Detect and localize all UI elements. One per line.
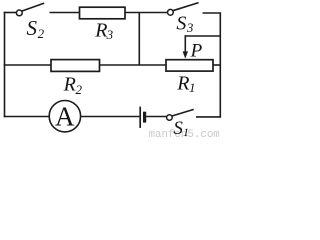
svg-text:R: R xyxy=(63,74,76,96)
svg-text:R: R xyxy=(176,72,189,94)
svg-text:P: P xyxy=(190,41,203,62)
svg-text:S: S xyxy=(27,16,38,40)
svg-text:S: S xyxy=(176,12,186,34)
svg-text:S: S xyxy=(173,118,183,138)
svg-text:1: 1 xyxy=(183,125,189,138)
svg-text:2: 2 xyxy=(38,26,45,41)
svg-text:3: 3 xyxy=(106,27,114,42)
svg-text:R: R xyxy=(94,19,107,41)
svg-text:3: 3 xyxy=(186,20,194,35)
svg-text:1: 1 xyxy=(189,80,196,95)
svg-text:2: 2 xyxy=(76,82,83,97)
svg-text:A: A xyxy=(55,101,75,131)
